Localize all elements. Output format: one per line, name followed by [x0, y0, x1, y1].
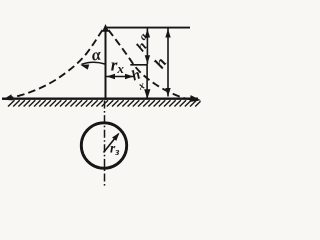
angle alpha arc arrow: [80, 62, 105, 70]
left protection boundary curve: [2, 30, 103, 103]
r_x dimension line: [106, 74, 134, 79]
right protection boundary curve: [109, 30, 202, 104]
h_a dimension arrow: [145, 28, 150, 64]
level line at h_x: [130, 64, 148, 66]
svg-text:x: x: [136, 79, 147, 93]
ground hatching: [8, 100, 201, 106]
svg-text:α: α: [90, 44, 103, 64]
svg-text:rз: rз: [110, 141, 119, 159]
lightning rod: [105, 26, 107, 100]
ground: [2, 97, 198, 99]
top reference line: [106, 27, 191, 29]
axis center line: [104, 101, 106, 187]
grounding electrode circle: [81, 123, 126, 168]
rod tip arrow: [102, 24, 109, 32]
h_x dimension arrow to ground: [144, 66, 150, 100]
label h_a: [134, 30, 151, 54]
electrode radius arrow: [104, 131, 122, 153]
svg-text:rx: rx: [111, 56, 125, 77]
h dimension arrow: [165, 28, 170, 97]
label h_x: [129, 67, 147, 93]
